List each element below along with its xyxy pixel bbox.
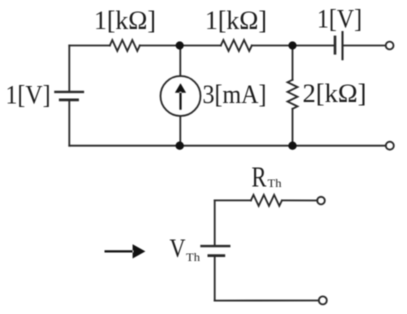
wire: thevenin top rail left of R_Th — [215, 199, 251, 201]
wire: current source bottom lead — [179, 116, 181, 146]
wire: current source top lead — [179, 46, 181, 77]
wire: top rail between R1 and R2 — [140, 45, 221, 47]
battery V1 1[V]: short plate — [60, 99, 77, 102]
node A (top middle junction dot) — [176, 41, 184, 49]
resistor R_Th (horizontal zigzag) — [251, 195, 282, 206]
resistor R3 2[kΩ] (vertical zigzag) — [288, 80, 298, 109]
resistor R1 1[kΩ] (top-left, horizontal zigzag) — [110, 40, 140, 51]
node B (top right junction dot) — [288, 41, 296, 49]
wire: top rail left segment (corner to R1) — [69, 45, 110, 47]
svg-text:R: R — [252, 163, 267, 194]
svg-text:1[V]: 1[V] — [6, 81, 51, 110]
wire: battery V2 to terminal a — [343, 45, 386, 47]
wire: left rail lower (battery V1 down to bottom corner) — [68, 101, 70, 146]
battery V1 1[V] (vertical, left): long plate — [55, 91, 83, 93]
svg-text:2[kΩ]: 2[kΩ] — [303, 79, 367, 108]
terminal b (open circle, bottom right) — [386, 142, 394, 150]
battery VTh: short plate — [209, 254, 224, 257]
svg-text:1[kΩ]: 1[kΩ] — [94, 6, 156, 35]
terminal d (open circle, thevenin bottom) — [319, 296, 327, 304]
wire: thevenin bottom vertical (battery to corner) — [214, 257, 216, 301]
terminal a (open circle, top right) — [386, 42, 394, 50]
svg-text:V: V — [170, 234, 186, 263]
node D (bottom right junction dot) — [288, 142, 296, 150]
wire: top rail from R2 to battery V2 — [252, 45, 335, 47]
svg-text:1[kΩ]: 1[kΩ] — [205, 6, 267, 35]
resistor R2 1[kΩ] (top-middle, horizontal zigzag) — [221, 40, 252, 51]
node C (bottom middle junction dot) — [176, 142, 184, 150]
svg-text:Th: Th — [186, 250, 200, 264]
wire: thevenin top rail right of R_Th to terminal c — [282, 199, 317, 201]
current source I1 3[mA] (circle) — [161, 76, 201, 116]
terminal c (open circle, thevenin top) — [317, 197, 325, 205]
svg-text:Th: Th — [268, 176, 282, 190]
wire: bottom rail — [69, 145, 386, 147]
wire: 2k branch bottom lead — [292, 109, 294, 146]
wire: 2k branch top lead — [292, 46, 294, 80]
battery VTh (vertical): long plate — [202, 245, 230, 247]
wire: thevenin bottom rail to terminal d — [215, 300, 319, 302]
wire: thevenin top vertical (battery to corner) — [214, 200, 216, 245]
equivalence arrow (pointing right) — [105, 244, 146, 258]
current source I1 arrow (upward) — [175, 83, 186, 110]
wire: left rail upper (top corner down to battery V1) — [68, 46, 70, 92]
svg-text:1[V]: 1[V] — [317, 5, 362, 34]
battery V2 1[V] (horizontal, top-right): short plate — [334, 37, 337, 53]
battery V2 1[V]: long plate — [341, 32, 343, 59]
svg-text:3[mA]: 3[mA] — [203, 80, 267, 109]
